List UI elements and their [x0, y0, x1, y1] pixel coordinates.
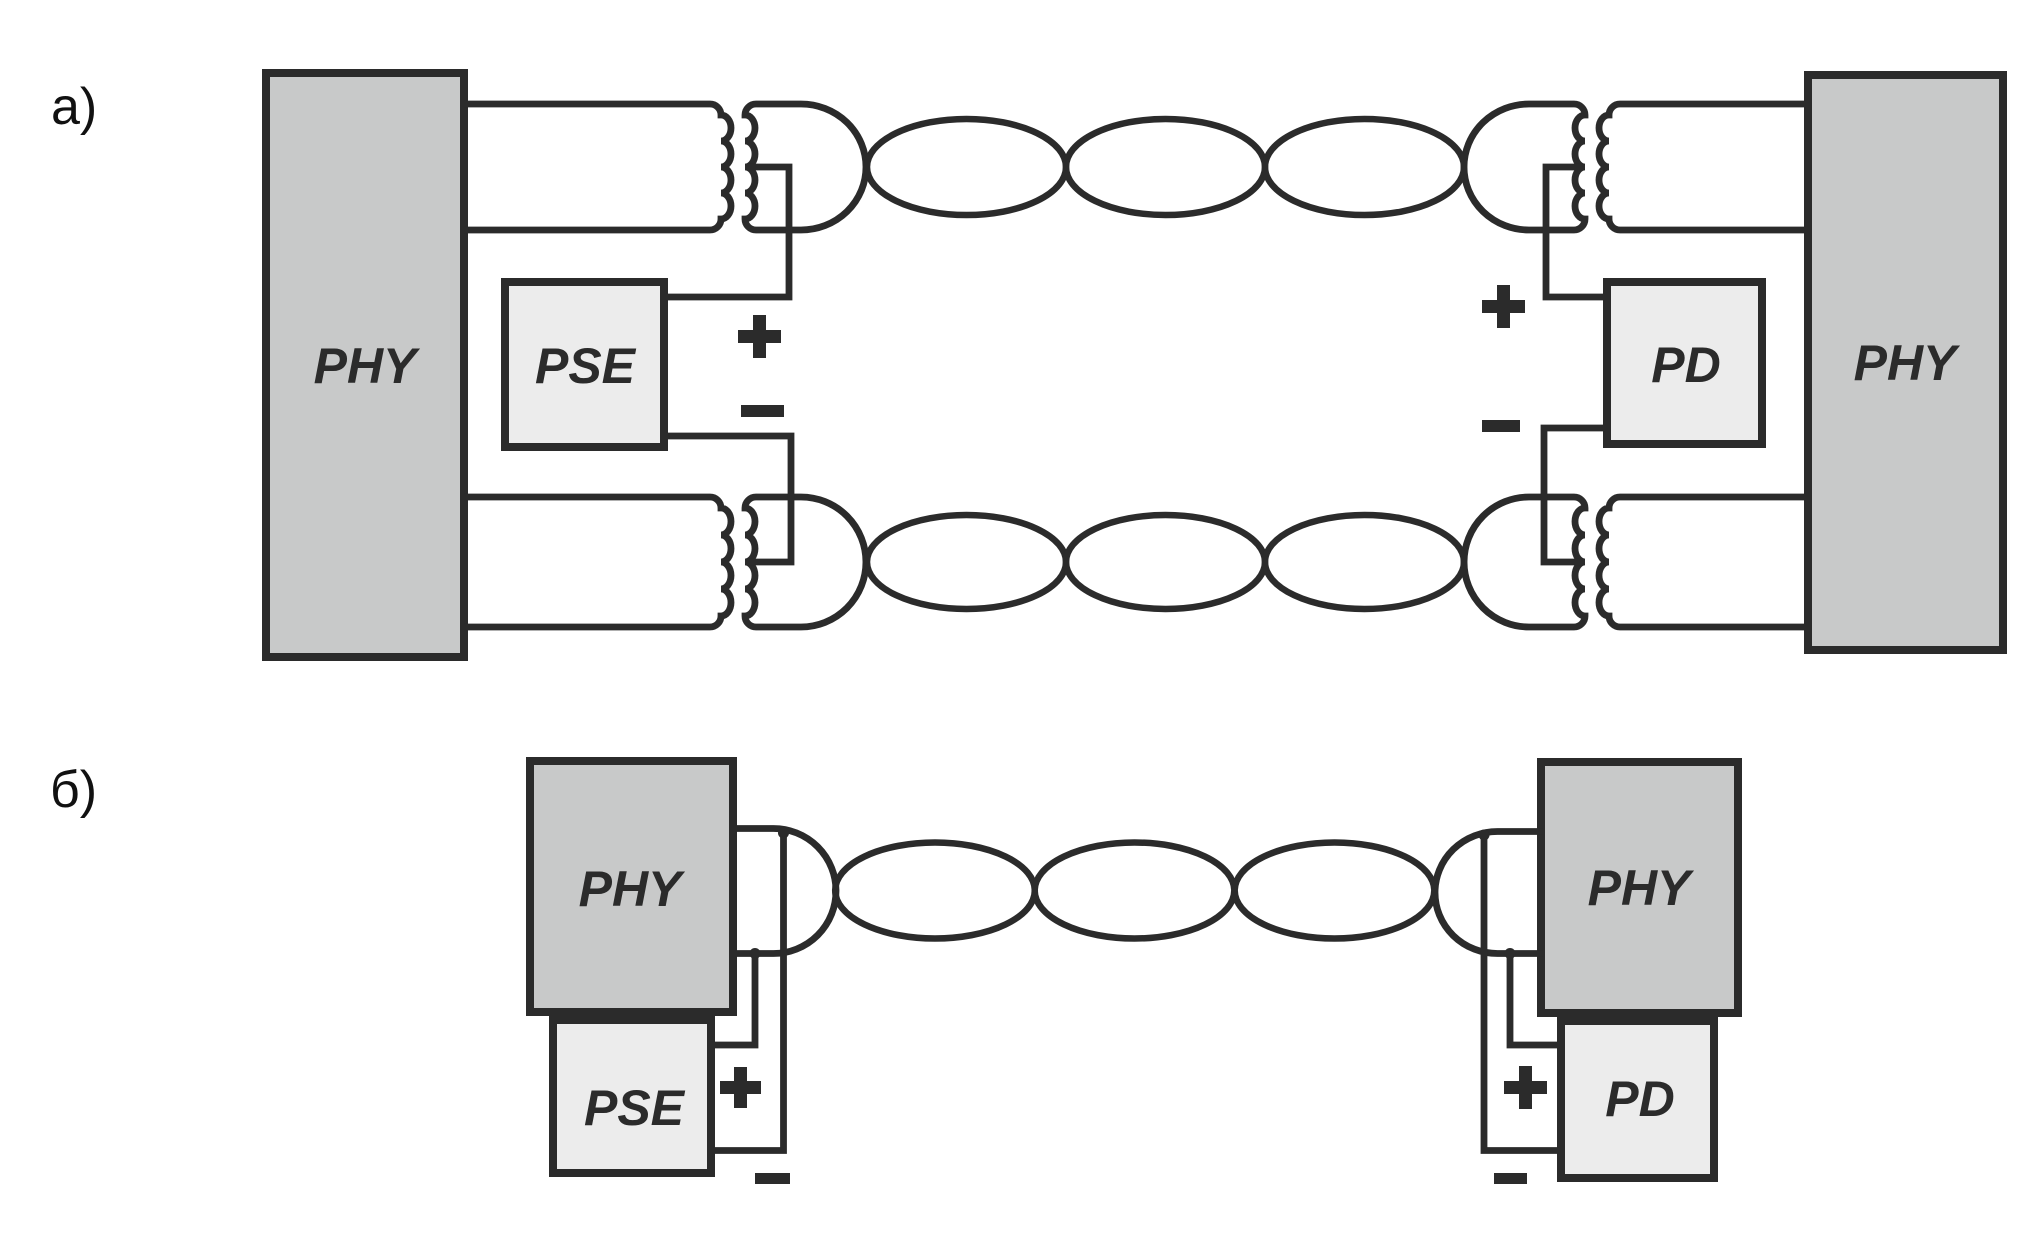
block PHY left (a) [266, 73, 464, 657]
junction dot plus-tap left (b) [778, 828, 789, 839]
wire bottom conductor to PSE plus (b left) [713, 954, 755, 1046]
transformer T3 secondary winding + cable end arc (bottom pair left) [745, 497, 866, 627]
block PHY right (b) [1541, 762, 1738, 1013]
block PD [1607, 282, 1762, 444]
svg-text:PSE: PSE [584, 1080, 686, 1136]
transformer T4 primary winding + wires to PHY right (bottom pair) [1599, 497, 1806, 627]
twisted pair top, twist ellipse 3 [1265, 119, 1464, 215]
plus terminal PD [1482, 285, 1525, 328]
svg-text:PHY: PHY [579, 861, 686, 917]
wire PD minus terminal to T4 center tap [1544, 428, 1605, 562]
plus terminal PSE (b) [720, 1067, 761, 1108]
transformer T4 secondary winding + cable end arc (bottom pair right) [1464, 497, 1585, 627]
block PHY right (a) [1808, 75, 2003, 650]
plus terminal PSE [738, 315, 781, 358]
block PSE (b) [553, 1020, 711, 1173]
wire PD plus terminal to T2 center tap [1546, 167, 1605, 297]
twisted pair (b), twist ellipse 1 [835, 843, 1035, 939]
cable end arc left (b) with wires to PHY [735, 829, 836, 954]
wire top conductor to PD minus (b right) [1484, 835, 1559, 1151]
svg-text:PHY: PHY [314, 338, 421, 394]
transformer T1 secondary winding + cable end arc (top pair left) [745, 104, 866, 230]
junction dot minus-tap right (b) [1479, 830, 1490, 841]
transformer T1 primary winding + wires to PHY left (top pair) [464, 104, 731, 230]
wire PSE minus terminal to T3 center tap [666, 436, 791, 562]
wire PSE plus terminal to T1 center tap [666, 167, 789, 297]
twisted pair bottom, twist ellipse 1 [867, 515, 1066, 609]
transformer T2 secondary winding + cable end arc (top pair right) [1464, 104, 1585, 230]
block PSE [505, 282, 664, 447]
minus terminal PD [1482, 420, 1520, 432]
twisted pair top, twist ellipse 1 [867, 119, 1066, 215]
minus terminal PSE [741, 405, 784, 417]
twisted pair top, twist ellipse 2 [1066, 119, 1265, 215]
cable end arc right (b) with wires to PHY [1435, 832, 1543, 954]
junction dot minus-tap left (b) [750, 948, 761, 959]
svg-text:б): б) [50, 761, 97, 819]
minus terminal PSE (b) [755, 1173, 790, 1184]
twisted pair bottom, twist ellipse 3 [1265, 515, 1464, 609]
junction dot plus-tap right (b) [1505, 948, 1516, 959]
svg-text:PSE: PSE [535, 338, 637, 394]
transformer T3 primary winding + wires to PHY left (bottom pair) [464, 497, 731, 627]
twisted pair bottom, twist ellipse 2 [1066, 515, 1265, 609]
block PHY left (b) [530, 761, 733, 1012]
transformer T2 primary winding + wires to PHY right (top pair) [1599, 104, 1806, 230]
wire bottom conductor to PD plus (b right) [1510, 954, 1559, 1046]
twisted pair (b), twist ellipse 3 [1235, 843, 1435, 939]
svg-text:a): a) [51, 78, 97, 136]
wire top conductor to PSE minus (b left) [713, 833, 784, 1151]
twisted pair (b), twist ellipse 2 [1035, 843, 1235, 939]
minus terminal PD (b) [1494, 1173, 1527, 1184]
svg-text:PHY: PHY [1588, 860, 1695, 916]
block PD (b) [1561, 1021, 1714, 1178]
svg-text:PD: PD [1605, 1071, 1674, 1127]
svg-text:PHY: PHY [1854, 335, 1961, 391]
svg-text:PD: PD [1651, 337, 1720, 393]
plus terminal PD (b) [1504, 1066, 1547, 1109]
